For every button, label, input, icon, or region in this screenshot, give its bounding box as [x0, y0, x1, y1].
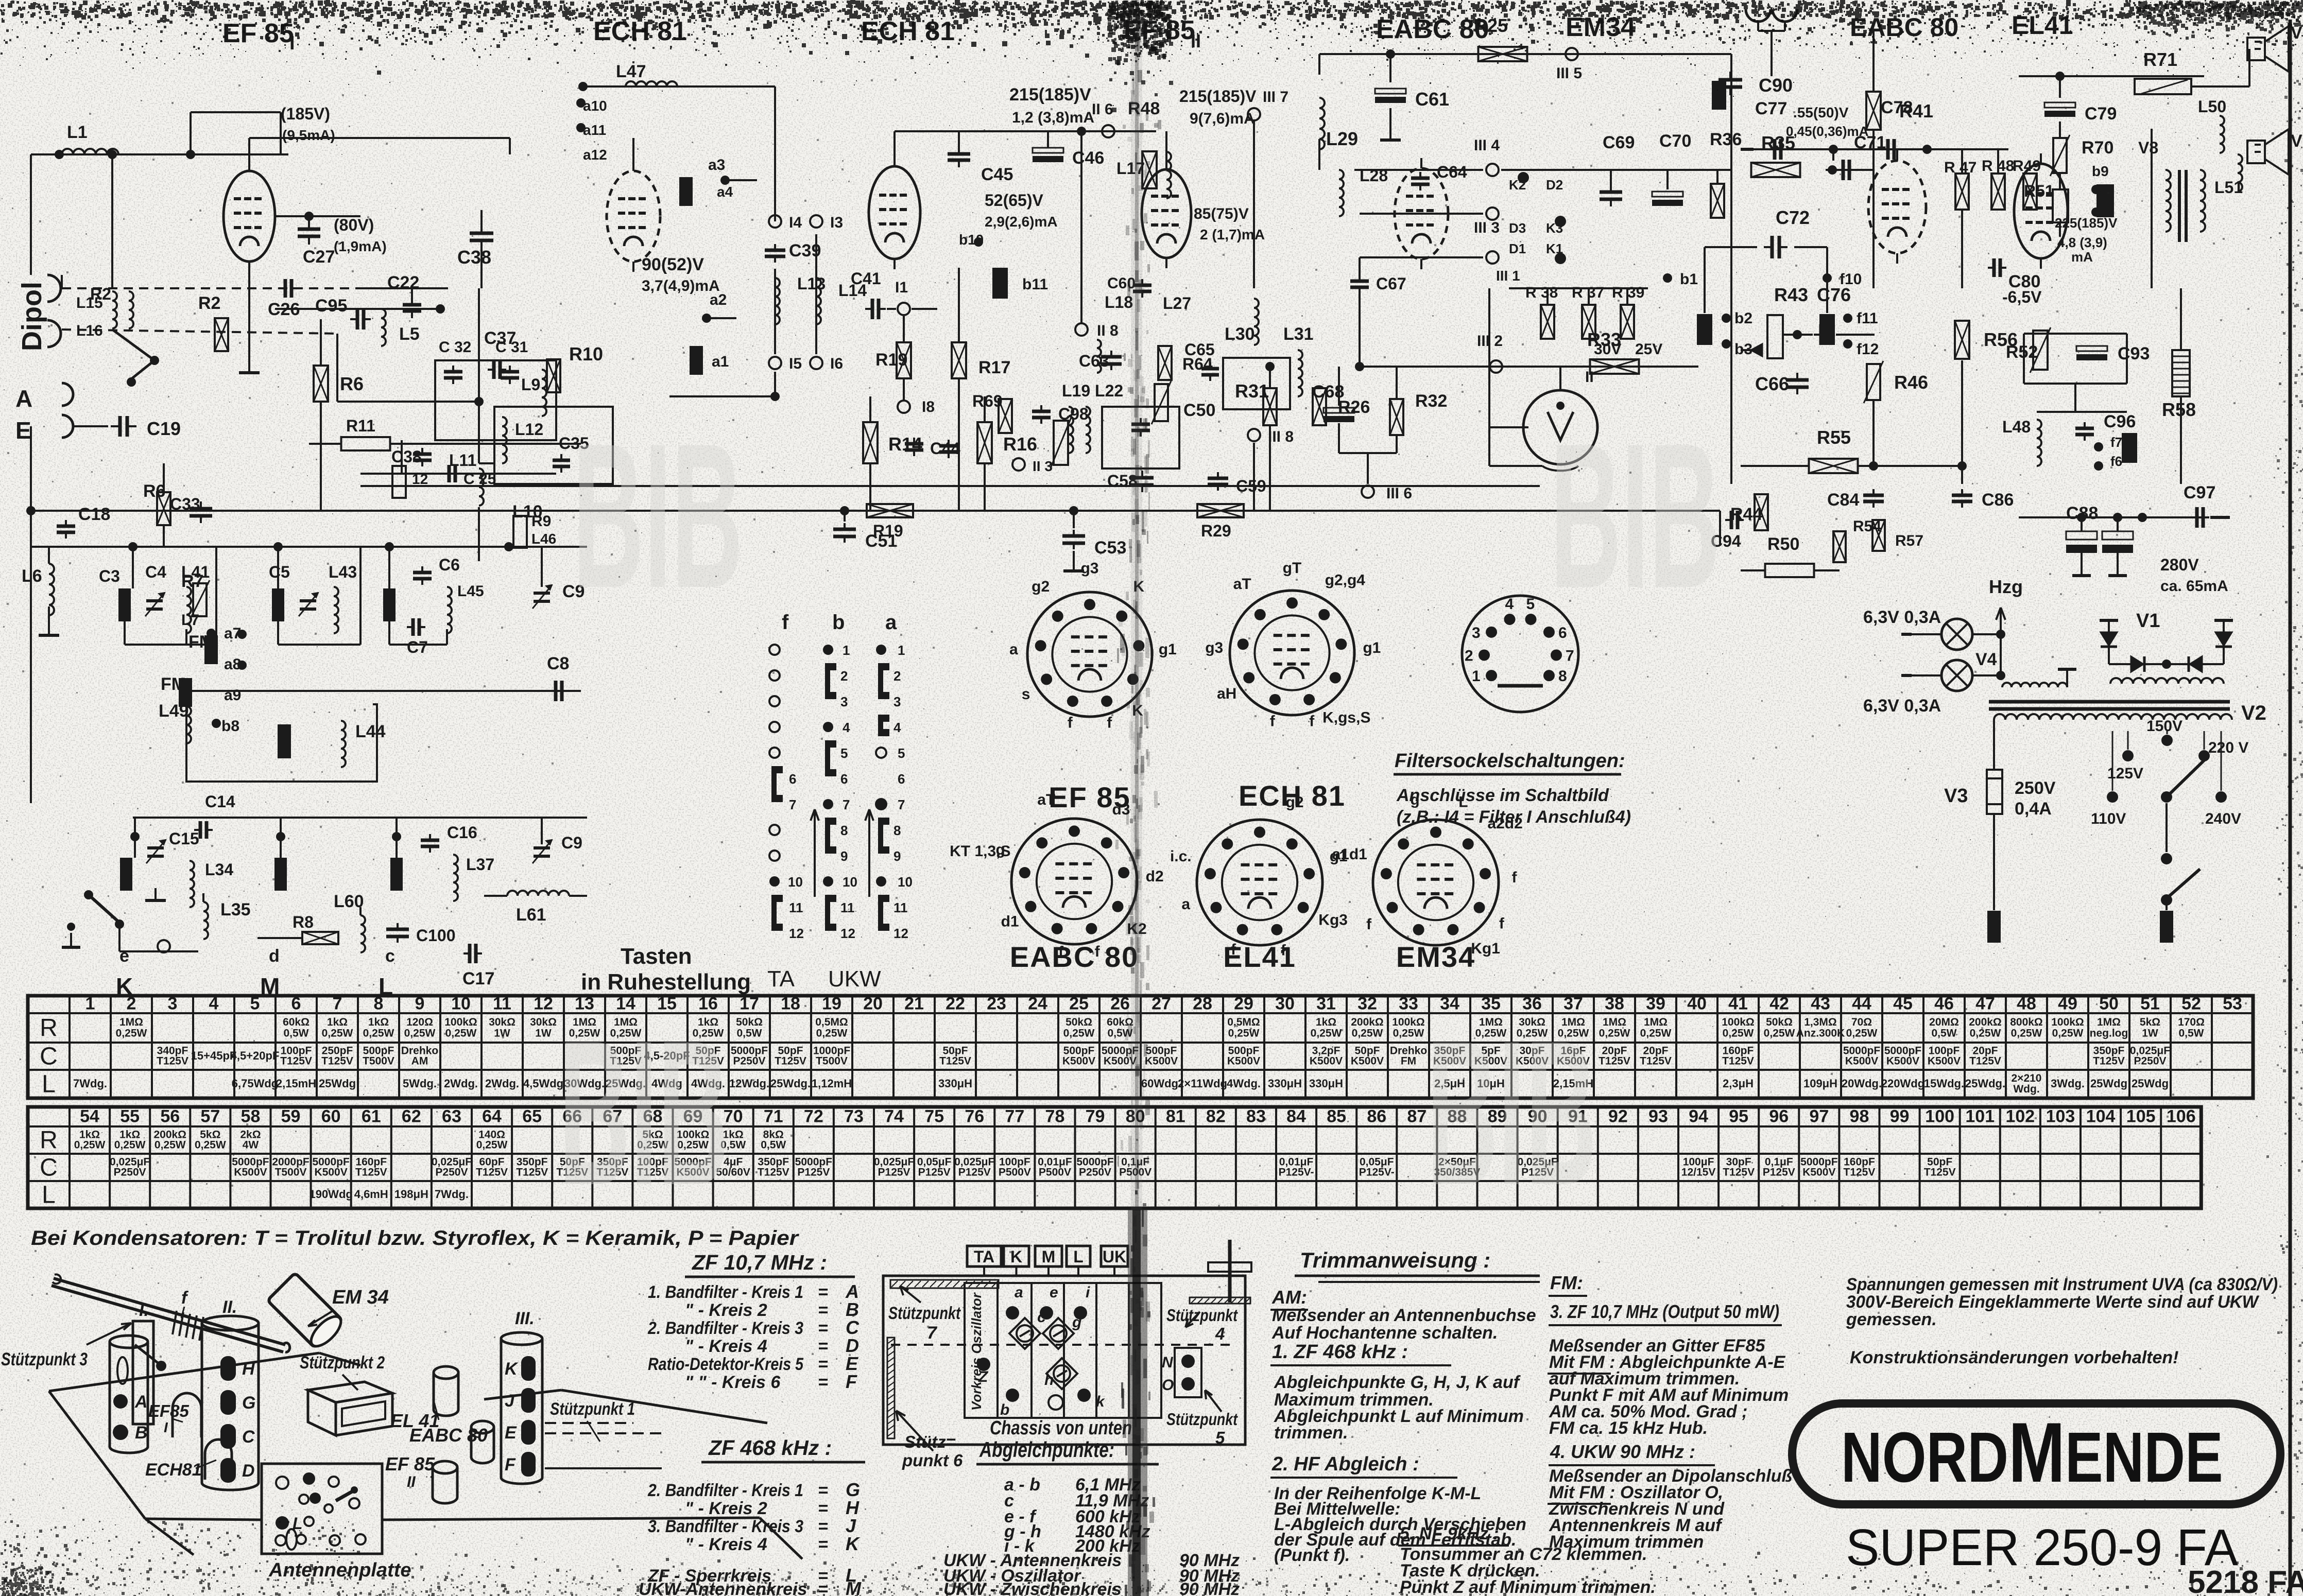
svg-text:71: 71 — [764, 1107, 783, 1126]
svg-text:T125V: T125V — [1723, 1166, 1755, 1178]
svg-text:L37: L37 — [466, 855, 494, 874]
svg-text:" " - Kreis 6: " " - Kreis 6 — [685, 1373, 781, 1392]
svg-text:0,25W: 0,25W — [114, 1139, 146, 1151]
svg-text:200kΩ: 200kΩ — [1969, 1016, 2002, 1028]
svg-text:R10: R10 — [569, 343, 603, 365]
svg-text:a9: a9 — [224, 687, 241, 704]
svg-text:" - Kreis 2: " - Kreis 2 — [685, 1300, 767, 1320]
svg-text:0,5MΩ: 0,5MΩ — [1227, 1016, 1260, 1028]
svg-text:C72: C72 — [1776, 207, 1810, 228]
svg-text:(80V): (80V) — [334, 216, 374, 234]
svg-text:1. ZF 468 kHz :: 1. ZF 468 kHz : — [1272, 1341, 1408, 1363]
svg-text:65: 65 — [522, 1107, 542, 1126]
svg-text:K: K — [1010, 1247, 1022, 1266]
svg-text:3. Bandfilter - Kreis 3: 3. Bandfilter - Kreis 3 — [648, 1517, 803, 1536]
svg-text:93: 93 — [1648, 1107, 1668, 1126]
svg-text:30V: 30V — [1594, 341, 1621, 358]
svg-text:12Wdg.: 12Wdg. — [729, 1077, 769, 1090]
svg-text:1: 1 — [85, 994, 95, 1014]
svg-text:L: L — [293, 1514, 303, 1533]
svg-text:a11: a11 — [583, 122, 606, 138]
svg-text:77: 77 — [1005, 1107, 1024, 1126]
svg-text:II 3: II 3 — [1033, 458, 1053, 474]
svg-text:neg.log: neg.log — [2090, 1028, 2128, 1039]
svg-text:97: 97 — [1809, 1107, 1829, 1126]
svg-text:55: 55 — [120, 1107, 140, 1126]
svg-text:V3: V3 — [1944, 785, 1968, 807]
svg-text:FM: FM — [1401, 1055, 1416, 1067]
svg-text:Punkt Z auf Minimum trimmen.: Punkt Z auf Minimum trimmen. — [1400, 1577, 1656, 1596]
svg-text:3Wdg.: 3Wdg. — [2051, 1077, 2085, 1090]
svg-text:6: 6 — [789, 771, 796, 787]
svg-text:Chassis von unten: Chassis von unten — [990, 1417, 1132, 1439]
svg-text:11: 11 — [493, 994, 511, 1014]
svg-text:g3: g3 — [1205, 639, 1223, 656]
svg-text:C 31: C 31 — [495, 339, 528, 356]
svg-text:L: L — [42, 1071, 56, 1098]
svg-text:C63: C63 — [1079, 352, 1109, 370]
svg-text:C95: C95 — [315, 296, 347, 316]
svg-text:43: 43 — [1811, 994, 1830, 1014]
svg-text:C: C — [40, 1043, 58, 1070]
svg-text:P125V: P125V — [878, 1166, 910, 1178]
svg-text:P125V-: P125V- — [1359, 1166, 1395, 1178]
svg-text:C90: C90 — [1759, 75, 1793, 96]
svg-text:63: 63 — [442, 1107, 461, 1126]
svg-text:2 (1,7)mA: 2 (1,7)mA — [1200, 227, 1265, 242]
svg-text:4,8 (3,9): 4,8 (3,9) — [2057, 235, 2107, 250]
svg-text:48: 48 — [2017, 994, 2036, 1014]
svg-text:b1: b1 — [1680, 271, 1698, 288]
svg-text:=: = — [818, 1355, 828, 1374]
svg-text:Abgleichpunkte G, H, J, K auf: Abgleichpunkte G, H, J, K auf — [1274, 1373, 1521, 1392]
svg-text:(Punkt f).: (Punkt f). — [1274, 1546, 1350, 1565]
svg-text:Filtersockelschaltungen:: Filtersockelschaltungen: — [1395, 750, 1625, 772]
svg-text:III 8: III 8 — [1268, 428, 1294, 445]
svg-text:f7: f7 — [2110, 435, 2122, 450]
svg-text:L61: L61 — [516, 905, 546, 925]
svg-text:101: 101 — [1965, 1107, 1995, 1126]
svg-text:C8: C8 — [547, 654, 569, 673]
svg-text:25Wdg: 25Wdg — [319, 1077, 356, 1090]
svg-text:L12: L12 — [515, 420, 543, 439]
svg-text:84: 84 — [1286, 1107, 1306, 1126]
svg-text:Abgleichpunkte:: Abgleichpunkte: — [979, 1437, 1114, 1462]
svg-text:10: 10 — [843, 874, 857, 890]
svg-text:I: I — [164, 1419, 168, 1435]
svg-text:75: 75 — [924, 1107, 944, 1126]
svg-text:12: 12 — [412, 471, 428, 487]
svg-text:0,25W: 0,25W — [195, 1139, 226, 1151]
svg-text:94: 94 — [1689, 1107, 1708, 1126]
svg-text:III 1: III 1 — [1496, 268, 1520, 284]
svg-text:1. Bandfilter - Kreis 1: 1. Bandfilter - Kreis 1 — [648, 1282, 803, 1302]
svg-text:L5: L5 — [399, 324, 420, 344]
svg-text:330μH: 330μH — [1268, 1077, 1302, 1090]
svg-text:aH: aH — [1217, 685, 1236, 702]
svg-text:100: 100 — [1925, 1107, 1954, 1126]
svg-text:12: 12 — [534, 994, 553, 1014]
svg-text:6,3V 0,3A: 6,3V 0,3A — [1863, 608, 1941, 627]
svg-text:0,25W: 0,25W — [476, 1139, 508, 1151]
svg-text:I6: I6 — [830, 355, 843, 372]
svg-text:" - Kreis 4: " - Kreis 4 — [685, 1337, 767, 1356]
svg-text:57: 57 — [200, 1107, 220, 1126]
svg-text:0,5MΩ: 0,5MΩ — [815, 1016, 848, 1028]
svg-text:99: 99 — [1890, 1107, 1910, 1126]
svg-text:5: 5 — [1526, 596, 1535, 613]
svg-text:R9: R9 — [531, 513, 551, 530]
svg-text:K500V: K500V — [1062, 1055, 1095, 1067]
svg-text:=: = — [818, 1319, 828, 1338]
svg-text:0,25W: 0,25W — [1764, 1028, 1795, 1039]
svg-text:25Wdg: 25Wdg — [2132, 1077, 2169, 1090]
svg-text:C61: C61 — [1415, 89, 1449, 110]
svg-text:60Wdg.: 60Wdg. — [1141, 1077, 1181, 1090]
svg-text:79: 79 — [1086, 1107, 1105, 1126]
svg-text:Stützpunkt 3: Stützpunkt 3 — [1, 1349, 88, 1369]
svg-text:Stützpunkt 2: Stützpunkt 2 — [300, 1353, 385, 1373]
svg-text:0,25W: 0,25W — [445, 1028, 477, 1039]
svg-text:6: 6 — [291, 994, 301, 1014]
svg-text:(9,5mA): (9,5mA) — [282, 127, 335, 143]
svg-text:42: 42 — [1769, 994, 1789, 1014]
svg-text:Bei Kondensatoren: T = Trolitu: Bei Kondensatoren: T = Trolitul bzw. Sty… — [31, 1227, 800, 1250]
svg-text:(185V): (185V) — [281, 105, 330, 123]
svg-text:C19: C19 — [147, 418, 181, 439]
svg-text:g1: g1 — [1363, 639, 1381, 656]
svg-text:5. NF 9kHz :: 5. NF 9kHz : — [1400, 1524, 1499, 1543]
svg-text:Stützpunkt: Stützpunkt — [1166, 1410, 1239, 1429]
svg-text:24: 24 — [1028, 994, 1047, 1014]
svg-text:NORDMENDE: NORDMENDE — [1841, 1405, 2223, 1500]
svg-text:100kΩ: 100kΩ — [444, 1016, 477, 1028]
svg-text:F: F — [505, 1455, 516, 1474]
svg-text:.55(50)V: .55(50)V — [1793, 105, 1849, 120]
svg-text:104: 104 — [2086, 1107, 2116, 1126]
svg-text:T125V: T125V — [476, 1166, 508, 1178]
svg-text:30kΩ: 30kΩ — [530, 1016, 557, 1028]
svg-text:110V: 110V — [2091, 810, 2126, 827]
svg-text:EF 85: EF 85 — [385, 1453, 435, 1474]
svg-text:=: = — [818, 1282, 828, 1302]
svg-text:f12: f12 — [1857, 341, 1879, 358]
svg-text:a4: a4 — [717, 184, 733, 200]
svg-text:i: i — [1086, 1284, 1090, 1301]
svg-text:19: 19 — [822, 994, 841, 1014]
svg-text:C53: C53 — [1094, 538, 1126, 558]
svg-text:41: 41 — [1728, 994, 1748, 1014]
svg-text:g2,g4: g2,g4 — [1325, 571, 1366, 588]
svg-text:g2: g2 — [1032, 578, 1050, 595]
svg-text:K500V: K500V — [1845, 1055, 1878, 1067]
svg-text:1W: 1W — [2142, 1028, 2158, 1039]
svg-text:44: 44 — [1852, 994, 1871, 1014]
svg-text:A: A — [134, 1392, 148, 1412]
svg-text:Stützpunkt: Stützpunkt — [888, 1304, 961, 1323]
svg-text:73: 73 — [844, 1107, 864, 1126]
svg-text:106: 106 — [2167, 1107, 2196, 1126]
svg-text:20Wdg.: 20Wdg. — [1842, 1077, 1882, 1090]
svg-text:30kΩ: 30kΩ — [489, 1016, 515, 1028]
svg-text:L44: L44 — [355, 722, 386, 741]
svg-text:T500V: T500V — [275, 1166, 307, 1178]
svg-text:d: d — [269, 946, 280, 966]
svg-text:I.: I. — [139, 1300, 149, 1320]
svg-text:0,25W: 0,25W — [1352, 1028, 1383, 1039]
svg-text:M: M — [1042, 1247, 1056, 1266]
svg-text:0,45(0,36)mA: 0,45(0,36)mA — [1786, 124, 1869, 139]
svg-text:L: L — [1073, 1247, 1084, 1266]
svg-text:EM34: EM34 — [1396, 941, 1475, 973]
svg-text:215(185)V: 215(185)V — [1179, 87, 1257, 106]
svg-text:98: 98 — [1850, 1107, 1869, 1126]
svg-text:0,5W: 0,5W — [736, 1028, 762, 1039]
svg-text:K500V: K500V — [315, 1166, 348, 1178]
svg-text:9: 9 — [893, 848, 901, 864]
svg-text:A: A — [15, 385, 32, 412]
svg-text:4: 4 — [1215, 1324, 1225, 1343]
svg-text:22: 22 — [946, 994, 965, 1014]
svg-text:C64: C64 — [1437, 163, 1467, 181]
svg-text:4,5Wdg: 4,5Wdg — [523, 1077, 563, 1090]
svg-text:1MΩ: 1MΩ — [119, 1016, 143, 1028]
svg-text:C38: C38 — [391, 447, 422, 466]
svg-text:4: 4 — [209, 994, 219, 1014]
svg-text:=: = — [818, 1517, 828, 1536]
svg-text:P125V: P125V — [958, 1166, 991, 1178]
svg-text:P250V: P250V — [435, 1166, 468, 1178]
svg-text:L50: L50 — [2198, 97, 2226, 116]
svg-text:III 3: III 3 — [1474, 219, 1500, 236]
svg-text:EL41: EL41 — [1223, 941, 1296, 973]
svg-text:11: 11 — [840, 900, 855, 915]
svg-text:47: 47 — [1975, 994, 1995, 1014]
svg-text:2×210: 2×210 — [2012, 1072, 2042, 1084]
svg-text:C96: C96 — [2104, 412, 2136, 431]
svg-text:L: L — [42, 1182, 56, 1209]
svg-text:I8: I8 — [922, 398, 935, 415]
svg-text:Stützpunkt 1: Stützpunkt 1 — [550, 1399, 635, 1419]
svg-text:C79: C79 — [2085, 104, 2117, 124]
svg-text:5: 5 — [250, 994, 260, 1014]
svg-text:86: 86 — [1367, 1107, 1386, 1126]
svg-text:III 4: III 4 — [1474, 137, 1500, 154]
svg-text:3. ZF 10,7 MHz (Output 50 mW): 3. ZF 10,7 MHz (Output 50 mW) — [1550, 1301, 1779, 1322]
svg-text:f: f — [782, 611, 789, 634]
svg-text:UK: UK — [1103, 1247, 1126, 1266]
svg-text:EABC 80: EABC 80 — [409, 1425, 488, 1446]
svg-text:L6: L6 — [22, 566, 42, 586]
svg-text:Auf Hochantenne schalten.: Auf Hochantenne schalten. — [1271, 1323, 1498, 1343]
svg-text:2Wdg.: 2Wdg. — [485, 1077, 519, 1090]
svg-text:7: 7 — [333, 994, 342, 1014]
svg-text:Tasten: Tasten — [621, 944, 692, 969]
svg-text:58: 58 — [241, 1107, 261, 1126]
svg-text:C7: C7 — [407, 638, 428, 656]
svg-text:V1: V1 — [2136, 610, 2160, 632]
svg-text:12: 12 — [893, 926, 908, 941]
svg-text:12/15V: 12/15V — [1681, 1166, 1716, 1178]
svg-text:215(185)V: 215(185)V — [1009, 85, 1091, 105]
svg-text:0,25W: 0,25W — [1723, 1028, 1754, 1039]
svg-text:0,25W: 0,25W — [1311, 1028, 1342, 1039]
svg-text:6: 6 — [840, 771, 848, 787]
svg-text:C: C — [40, 1154, 58, 1182]
svg-text:7: 7 — [1566, 647, 1574, 664]
svg-text:1,2 (3,8)mA: 1,2 (3,8)mA — [1012, 109, 1094, 126]
svg-text:B: B — [135, 1423, 148, 1443]
svg-text:K500V: K500V — [1227, 1055, 1260, 1067]
svg-text:6: 6 — [898, 771, 905, 787]
svg-text:64: 64 — [482, 1107, 502, 1126]
svg-text:0,25W: 0,25W — [404, 1028, 436, 1039]
svg-text:f11: f11 — [1857, 310, 1878, 327]
svg-text:V2: V2 — [2241, 702, 2266, 724]
svg-text:300V-Bereich Eingeklammerte W: 300V-Bereich Eingeklammerte Werte sind a… — [1846, 1292, 2260, 1312]
svg-text:83: 83 — [1246, 1107, 1266, 1126]
svg-text:8: 8 — [374, 994, 384, 1014]
svg-text:C45: C45 — [981, 165, 1013, 184]
svg-text:T125V: T125V — [758, 1166, 789, 1178]
svg-text:1,3MΩ: 1,3MΩ — [1804, 1016, 1837, 1028]
svg-text:25Wdg.: 25Wdg. — [1965, 1077, 2005, 1090]
svg-text:0,4A: 0,4A — [2015, 799, 2052, 819]
svg-text:33: 33 — [1399, 994, 1418, 1014]
svg-text:53: 53 — [2223, 994, 2242, 1014]
svg-text:25Wdg.: 25Wdg. — [770, 1077, 811, 1090]
svg-text:12: 12 — [789, 926, 804, 941]
svg-text:28: 28 — [1193, 994, 1212, 1014]
svg-text:K: K — [846, 1533, 861, 1554]
svg-text:74: 74 — [884, 1107, 904, 1126]
svg-text:SUPER 250-9 FA: SUPER 250-9 FA — [1846, 1519, 2238, 1576]
svg-text:81: 81 — [1166, 1107, 1185, 1126]
svg-text:R6: R6 — [143, 481, 165, 501]
svg-text:1MΩ: 1MΩ — [2097, 1016, 2121, 1028]
svg-text:109μH: 109μH — [1803, 1077, 1837, 1090]
svg-text:aT: aT — [1233, 576, 1251, 593]
svg-text:18: 18 — [781, 994, 800, 1014]
svg-text:L19 L22: L19 L22 — [1062, 381, 1123, 400]
svg-text:R57: R57 — [1895, 532, 1923, 549]
svg-text:2: 2 — [840, 668, 848, 684]
svg-text:39: 39 — [1646, 994, 1665, 1014]
svg-text:2. Bandfilter - Kreis 1: 2. Bandfilter - Kreis 1 — [647, 1481, 803, 1500]
svg-text:L9: L9 — [521, 375, 540, 394]
svg-text:III 7: III 7 — [1263, 89, 1288, 106]
svg-text:EF85: EF85 — [148, 1401, 190, 1420]
svg-text:a: a — [1181, 896, 1190, 913]
svg-text:R31: R31 — [1235, 380, 1269, 402]
svg-text:220 V: 220 V — [2208, 739, 2248, 756]
svg-text:TA: TA — [974, 1247, 994, 1266]
svg-text:Kg3: Kg3 — [1318, 911, 1348, 928]
svg-text:R71: R71 — [2143, 49, 2177, 70]
svg-text:90(52)V: 90(52)V — [642, 255, 704, 274]
svg-text:90 MHz: 90 MHz — [1179, 1580, 1240, 1596]
svg-text:C67: C67 — [1376, 274, 1406, 293]
svg-text:G: G — [242, 1393, 255, 1413]
svg-text:P250V: P250V — [2134, 1055, 2166, 1067]
svg-text:3: 3 — [1472, 624, 1481, 641]
svg-text:2: 2 — [1465, 647, 1473, 664]
svg-text:0,25W: 0,25W — [1063, 1028, 1095, 1039]
svg-text:C50: C50 — [1183, 401, 1215, 420]
svg-text:R69: R69 — [972, 392, 1003, 410]
svg-text:61: 61 — [362, 1107, 381, 1126]
svg-text:BIB: BIB — [573, 401, 743, 631]
svg-text:H: H — [242, 1359, 255, 1379]
svg-text:125V: 125V — [2107, 765, 2143, 782]
svg-text:b8: b8 — [221, 718, 239, 735]
svg-text:200kΩ: 200kΩ — [1351, 1016, 1384, 1028]
svg-text:0,25W: 0,25W — [363, 1028, 394, 1039]
svg-text:25Wdg: 25Wdg — [2090, 1077, 2127, 1090]
svg-text:1MΩ: 1MΩ — [1644, 1016, 1668, 1028]
svg-text:T500V: T500V — [816, 1055, 848, 1067]
svg-text:a: a — [1009, 641, 1018, 658]
svg-text:3: 3 — [168, 994, 178, 1014]
svg-text:L1: L1 — [67, 123, 88, 142]
svg-text:f: f — [1270, 713, 1276, 730]
svg-text:L41: L41 — [181, 563, 210, 581]
svg-text:C77: C77 — [1755, 99, 1787, 118]
svg-text:59: 59 — [281, 1107, 301, 1126]
svg-text:4: 4 — [1505, 596, 1514, 613]
svg-text:d2: d2 — [1146, 868, 1164, 885]
svg-text:II 6: II 6 — [1092, 101, 1113, 118]
svg-text:76: 76 — [965, 1107, 984, 1126]
svg-text:1kΩ: 1kΩ — [1316, 1016, 1336, 1028]
svg-text:Anschlüsse im Schaltbild: Anschlüsse im Schaltbild — [1396, 786, 1609, 805]
svg-text:38: 38 — [1605, 994, 1624, 1014]
svg-text:56: 56 — [160, 1107, 180, 1126]
svg-text:4W: 4W — [243, 1139, 259, 1151]
svg-text:K,gs,S: K,gs,S — [1322, 709, 1370, 726]
svg-text:2×11Wdg: 2×11Wdg — [1178, 1077, 1227, 1090]
svg-text:0,25W: 0,25W — [322, 1028, 353, 1039]
svg-text:EM 34: EM 34 — [332, 1287, 389, 1308]
svg-text:f: f — [1107, 715, 1112, 732]
svg-text:280V: 280V — [2160, 556, 2199, 574]
svg-text:C46: C46 — [1072, 148, 1104, 168]
svg-text:Dipol: Dipol — [16, 282, 47, 351]
svg-text:4. UKW 90 MHz :: 4. UKW 90 MHz : — [1550, 1441, 1695, 1462]
svg-text:1,12mH: 1,12mH — [812, 1077, 852, 1090]
svg-text:FM: FM — [161, 674, 186, 694]
svg-text:2: 2 — [893, 668, 901, 684]
svg-text:a1: a1 — [712, 353, 729, 370]
svg-text:C4: C4 — [145, 563, 166, 581]
svg-text:Trimmanweisung :: Trimmanweisung : — [1300, 1248, 1490, 1272]
svg-text:R8: R8 — [293, 913, 314, 931]
svg-text:R32: R32 — [1415, 391, 1447, 411]
svg-text:C18: C18 — [78, 505, 110, 524]
svg-text:R17: R17 — [978, 358, 1010, 377]
svg-text:BIB: BIB — [1550, 401, 1721, 631]
svg-text:O: O — [1162, 1377, 1174, 1394]
svg-text:82: 82 — [1206, 1107, 1226, 1126]
svg-text:I1: I1 — [895, 279, 908, 296]
svg-text:=: = — [818, 1373, 828, 1392]
svg-text:C17: C17 — [462, 969, 494, 988]
svg-text:50kΩ: 50kΩ — [1065, 1016, 1092, 1028]
svg-text:0,25W: 0,25W — [116, 1028, 147, 1039]
svg-text:=: = — [818, 1580, 828, 1596]
svg-text:1kΩ: 1kΩ — [327, 1016, 348, 1028]
svg-text:a1d1: a1d1 — [1332, 846, 1367, 863]
